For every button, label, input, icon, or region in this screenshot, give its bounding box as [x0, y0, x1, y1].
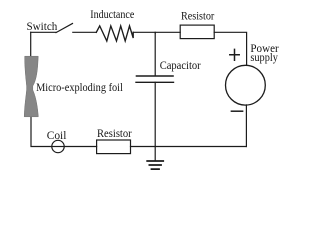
power supply circle [226, 65, 266, 105]
inductor [96, 26, 133, 41]
wire top-left vertical (corner to foil) [30, 32, 32, 56]
node capacitor tap junction [154, 31, 156, 34]
capacitor top lead [154, 33, 156, 76]
svg-text:Micro-exploding foil: Micro-exploding foil [36, 80, 123, 94]
ground lead [154, 147, 156, 161]
coil circle [52, 140, 64, 152]
svg-text:Inductance: Inductance [90, 7, 134, 21]
plus sign [230, 49, 239, 60]
svg-text:Resistor: Resistor [97, 126, 132, 140]
capacitor bottom lead [154, 82, 156, 146]
micro-exploding foil element [24, 56, 38, 117]
wire coil to bottom-left corner, up to foil [31, 117, 52, 147]
svg-text:supply: supply [250, 50, 278, 64]
switch [56, 24, 73, 33]
resistor R(bottom) box [97, 140, 131, 154]
svg-text:Resistor: Resistor [181, 9, 214, 23]
wire power supply bottom to bottom-right corner [245, 105, 247, 147]
wire resistor to coil [64, 146, 96, 148]
svg-text:Switch: Switch [27, 19, 58, 33]
svg-text:Capacitor: Capacitor [160, 58, 201, 72]
capacitor plates [136, 76, 174, 82]
resistor R(top) box [180, 25, 214, 38]
wire inductor to resistor box (through capacitor tap) [133, 31, 180, 33]
wire bottom rail middle (junction to resistor) [131, 146, 156, 148]
ground bars [147, 161, 163, 169]
wire top rail left (corner to switch hinge) [31, 31, 56, 33]
wire bottom rail right (corner to ground junction) [155, 146, 246, 148]
wire through coil [52, 146, 64, 148]
wire resistor to top-right corner, down to power supply [214, 32, 246, 65]
wire switch contact to inductor [73, 31, 97, 33]
svg-text:Coil: Coil [47, 128, 67, 142]
minus sign [231, 110, 242, 112]
